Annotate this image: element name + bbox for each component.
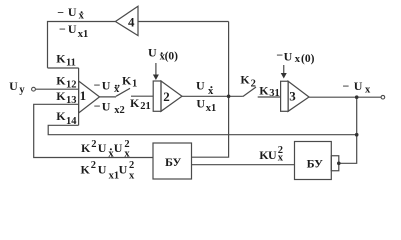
svg-text:K: K [240,73,250,87]
dot of x. label K2UxUx2 [110,148,112,150]
svg-text:K: K [81,163,91,177]
svg-text:K: K [56,109,66,123]
svg-text:(0): (0) [165,51,179,63]
switch K2 arm [243,87,256,97]
svg-text:2: 2 [124,139,129,150]
svg-text:3: 3 [289,88,296,103]
terminal Uy [32,87,36,91]
arrow shaft IC amp3 [283,65,285,74]
svg-text:U: U [119,163,128,177]
svg-text:K: K [259,83,269,97]
junction node A [227,95,231,99]
svg-text:−: − [276,48,283,62]
op-amp U3 triangle [288,81,309,111]
wire amp4 input from node vertical [138,21,229,23]
svg-text:БУ: БУ [307,157,324,171]
svg-text:−: − [343,79,350,93]
integrator U2 rect [153,81,161,111]
dots of x.. amp1 out [115,85,117,87]
svg-text:U: U [68,22,77,36]
svg-text:x: x [365,85,371,96]
svg-text:U: U [196,97,205,111]
wire amp1 output [100,96,117,98]
svg-text:(0): (0) [301,53,315,65]
arrow shaft IC amp2 [155,63,157,75]
svg-text:−: − [94,99,101,113]
wire top from amp4 output to left corner, down to K11 [48,22,116,68]
svg-text:21: 21 [140,101,151,112]
wire amp2 output [182,95,243,97]
svg-text:−: − [57,6,64,20]
wire KUx2 line BU1 to BU2 [192,164,295,166]
block BU2 [295,142,332,180]
svg-text:U: U [68,5,77,19]
dot of x. top left [81,11,83,13]
dot of x. IC amp2 [161,52,163,54]
svg-text:U: U [148,45,157,59]
svg-text:2: 2 [129,160,134,171]
svg-text:−: − [59,22,66,36]
svg-text:1: 1 [80,88,87,103]
wire K12 input from Uy terminal [36,88,79,90]
svg-text:U: U [102,100,111,114]
block BU1 [153,143,192,179]
svg-text:U: U [268,148,277,162]
integrator U2 triangle [161,81,182,111]
svg-text:2: 2 [251,78,256,89]
terminal -Ux [381,95,385,99]
svg-text:14: 14 [66,116,77,127]
svg-text:4: 4 [128,14,135,29]
svg-text:2: 2 [91,160,96,171]
svg-text:U: U [284,50,293,64]
junction node D [337,162,341,166]
svg-text:x1: x1 [109,171,120,182]
svg-text:2: 2 [91,139,96,150]
svg-text:−: − [94,78,101,92]
svg-text:K: K [122,74,132,88]
wire amp3 output [309,96,381,98]
wire K31 input [258,96,281,98]
svg-text:13: 13 [66,95,77,106]
svg-text:11: 11 [66,58,76,69]
op-amp U3 rect [281,81,289,111]
arrowhead IC amp3 [281,73,287,79]
svg-text:2: 2 [163,89,170,104]
svg-text:x: x [124,149,130,160]
op-amp U1 triangle [79,81,100,113]
svg-text:U: U [354,79,363,93]
wire node vertical center down to BU1 right side [192,22,229,158]
svg-text:K: K [81,141,91,155]
svg-text:x: x [295,54,301,65]
wire right vertical down to BU2 port [339,97,357,163]
svg-text:x1: x1 [78,29,89,40]
svg-text:x1: x1 [206,103,217,114]
svg-text:U: U [98,141,107,155]
svg-text:U: U [102,78,111,92]
svg-text:K: K [56,89,66,103]
switch K1 arm [116,88,130,96]
wire K11 input [48,67,79,69]
op-amp U4 triangle [115,6,138,35]
wire K13 input from BU1 output [34,104,153,157]
svg-text:U: U [114,141,123,155]
svg-text:БУ: БУ [165,155,182,169]
op-amp U1 summing bar [78,68,80,125]
svg-text:K: K [56,73,66,87]
svg-text:x2: x2 [114,105,125,116]
junction node C [355,133,359,137]
svg-text:U: U [196,78,205,92]
svg-text:1: 1 [132,79,137,90]
wire K21 input [131,95,153,97]
svg-text:12: 12 [66,79,77,90]
svg-text:K: K [130,96,140,110]
svg-text:2: 2 [278,145,283,156]
svg-text:U: U [9,79,18,93]
wire K14 input and long feedback line [48,125,357,134]
arrowhead IC amp2 [153,75,159,81]
svg-text:31: 31 [269,88,280,99]
svg-text:y: y [19,84,25,95]
svg-text:K: K [56,51,66,65]
svg-text:x: x [129,171,135,182]
svg-text:U: U [98,163,107,177]
block BU2 side port [331,156,339,171]
dot of x. amp2 out [210,86,212,88]
junction node B [355,95,359,99]
